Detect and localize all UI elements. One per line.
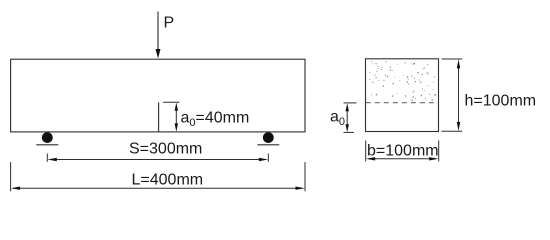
concrete stipple dots bbox=[369, 61, 436, 101]
a0 ticks (section) bbox=[344, 103, 357, 132]
cross-section outline bbox=[366, 59, 439, 132]
notch bbox=[158, 102, 160, 132]
b dimension line bbox=[366, 157, 438, 160]
a0 arrow (section) bbox=[346, 103, 349, 132]
right support bbox=[257, 132, 279, 145]
h dimension arrow bbox=[457, 59, 460, 130]
svg-text:b=100mm: b=100mm bbox=[367, 142, 439, 159]
svg-text:S=300mm: S=300mm bbox=[129, 141, 202, 158]
length dimension L extension lines bbox=[11, 162, 305, 191]
b dimension extension lines bbox=[366, 141, 439, 162]
svg-text:h=100mm: h=100mm bbox=[465, 93, 537, 110]
svg-text:P: P bbox=[164, 15, 175, 32]
beam outline bbox=[11, 59, 305, 132]
notch depth arrow a0 bbox=[175, 103, 178, 132]
span dimension S line bbox=[48, 158, 268, 161]
length dimension L line bbox=[11, 187, 305, 190]
left support bbox=[36, 132, 58, 145]
crack front dashed line bbox=[366, 102, 439, 104]
svg-text:L=400mm: L=400mm bbox=[132, 171, 204, 188]
h dimension ticks bbox=[442, 59, 463, 131]
span dimension S extension lines bbox=[47, 154, 268, 162]
load arrow P bbox=[156, 12, 161, 59]
notch depth tick bbox=[163, 101, 179, 103]
